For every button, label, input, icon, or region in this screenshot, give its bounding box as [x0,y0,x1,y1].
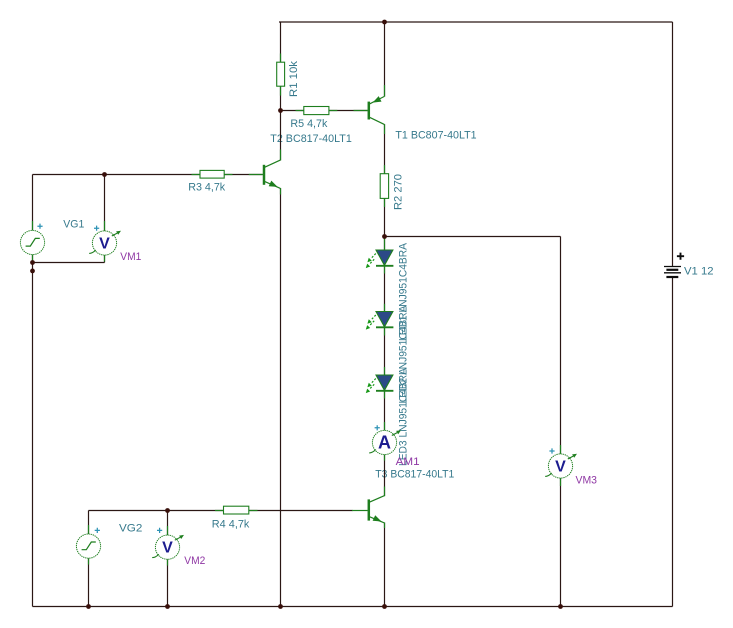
svg-text:VM2: VM2 [184,555,205,567]
svg-text:VM3: VM3 [576,474,598,486]
svg-text:T3 BC817-40LT1: T3 BC817-40LT1 [375,469,454,481]
svg-text:V1 12: V1 12 [684,266,714,278]
svg-text:VG2: VG2 [119,522,142,534]
svg-text:VM1: VM1 [120,251,141,263]
svg-text:LED3 LNJ951C4BRA: LED3 LNJ951C4BRA [397,367,409,466]
svg-text:T2 BC817-40LT1: T2 BC817-40LT1 [270,133,352,145]
svg-text:A: A [378,433,391,453]
svg-text:R3 4,7k: R3 4,7k [188,182,225,194]
svg-text:R1 10k: R1 10k [288,60,300,97]
svg-text:R4 4,7k: R4 4,7k [212,518,250,530]
svg-text:V: V [99,235,110,252]
svg-text:VG1: VG1 [63,218,84,230]
svg-text:AM1: AM1 [396,456,420,468]
svg-text:R5 4,7k: R5 4,7k [290,118,327,130]
svg-text:R2 270: R2 270 [393,174,405,210]
svg-text:T1 BC807-40LT1: T1 BC807-40LT1 [395,129,476,141]
svg-text:V: V [162,540,173,557]
svg-text:V: V [555,458,566,475]
